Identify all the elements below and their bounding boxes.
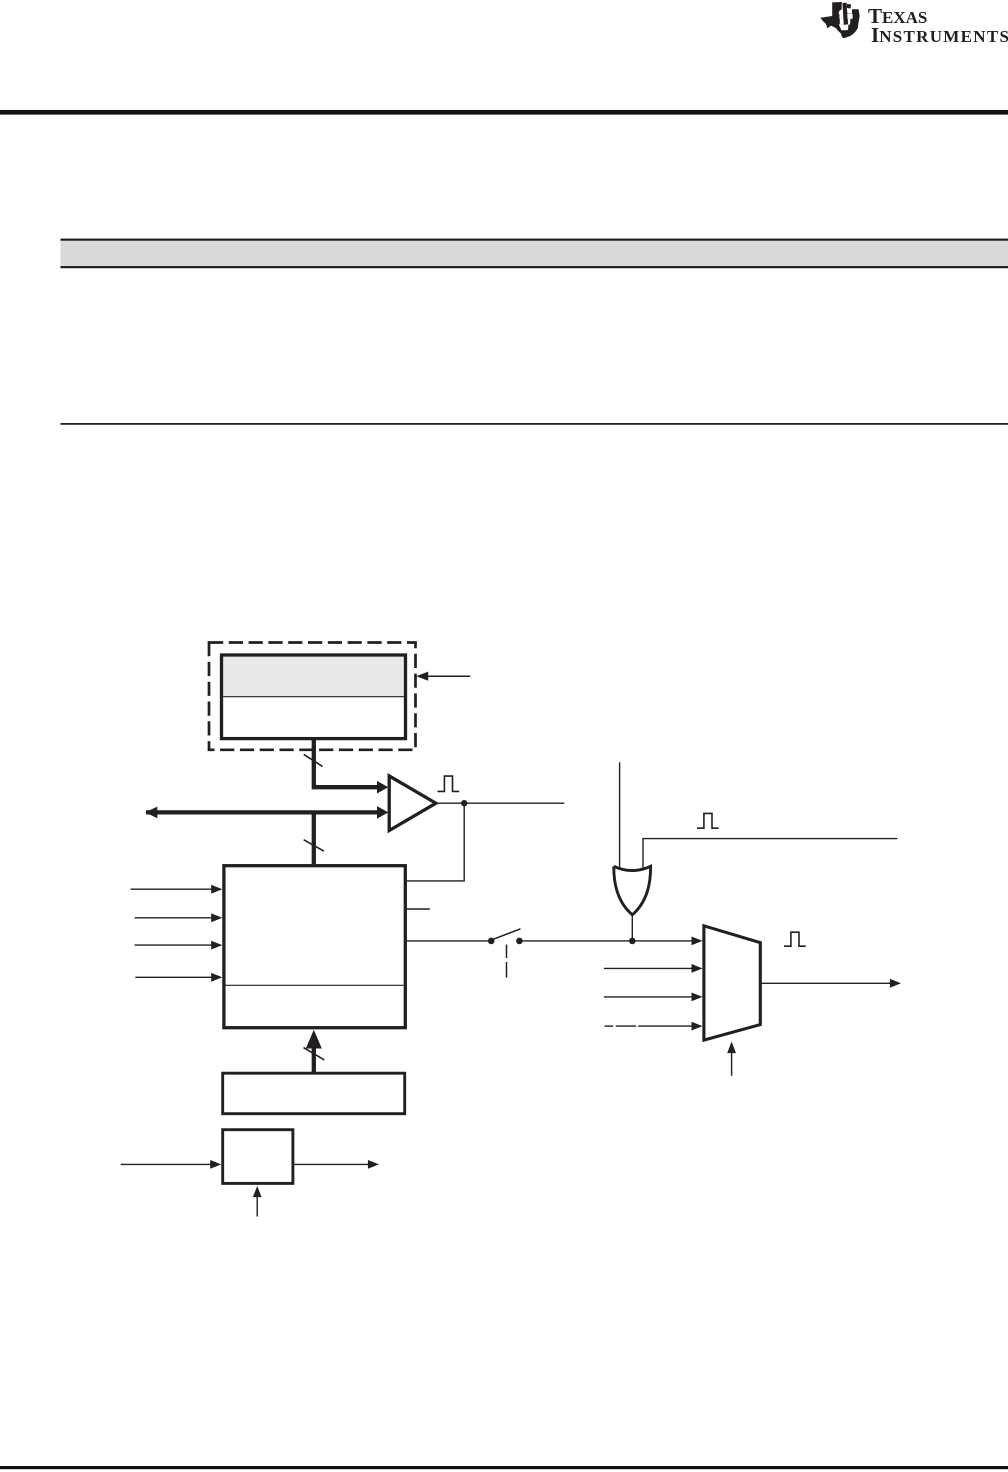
- pulse symbol P1: [438, 776, 460, 791]
- feedback wire to big box: [407, 803, 464, 881]
- bidirectional data bus: [146, 810, 378, 814]
- pulse symbol P3: [784, 932, 806, 946]
- wide box (period register): [223, 1073, 405, 1114]
- big box input wire 2: [135, 917, 212, 919]
- wire switch to mux input 1: [519, 940, 692, 942]
- register box border: [222, 655, 406, 739]
- big box input wire 1: [131, 888, 213, 890]
- small box output wire: [294, 1163, 368, 1165]
- comparator triangle: [389, 776, 436, 831]
- or-gate output wire: [631, 915, 633, 940]
- table bottom rule: [61, 423, 1008, 425]
- or-gate input wire left: [619, 762, 621, 868]
- bus from register box down with elbow to comparator: [314, 739, 378, 787]
- switch blade: [494, 929, 521, 939]
- arrowhead into comparator input 1: [377, 781, 388, 794]
- data bus left arrowhead: [145, 807, 157, 819]
- switch control dashed wire: [506, 945, 508, 959]
- bus down to big box: [312, 812, 316, 864]
- mux input wire 2: [604, 967, 692, 969]
- mux input wire 3: [604, 996, 692, 998]
- header rule: [0, 110, 1008, 115]
- table header gray band: [61, 239, 1008, 269]
- junction dot B: [629, 938, 636, 945]
- big box input wire 3: [135, 944, 212, 946]
- register box fill: [222, 655, 406, 739]
- mux trapezoid: [704, 926, 760, 1040]
- TI logo wordmark TEXAS: [868, 4, 927, 29]
- small box (prescaler): [223, 1130, 293, 1184]
- arrow into register box (load): [427, 675, 470, 677]
- switch dot right: [516, 938, 523, 945]
- TI logo wordmark INSTRUMENTS: [871, 23, 1008, 48]
- bus slash 1: [304, 754, 323, 766]
- bus slash 2: [304, 840, 324, 852]
- bus slash 3: [304, 1048, 325, 1060]
- footer rule: [0, 1466, 1008, 1469]
- wire big box to switch: [407, 940, 488, 942]
- register box divider: [223, 696, 404, 698]
- mux output wire: [760, 982, 890, 984]
- junction dot A: [461, 800, 467, 806]
- TI logo texas glyph: [820, 2, 860, 40]
- big box input wire 4: [135, 976, 212, 978]
- mux input wire 4 (dashed start): [604, 1025, 613, 1027]
- comparator output wire: [436, 802, 564, 804]
- bus up arrowhead: [306, 1030, 322, 1049]
- register box shaded top half: [223, 657, 404, 697]
- small box input wire: [121, 1163, 211, 1165]
- bus from wide box up into big box: [312, 1044, 316, 1072]
- or-gate input wire right with long horizontal: [643, 839, 897, 869]
- switch dot left: [488, 938, 495, 945]
- pulse symbol P2: [697, 813, 719, 828]
- dashed box (register boundary): [209, 643, 416, 750]
- big box divider: [226, 984, 404, 986]
- arrowhead into comparator input 2: [377, 806, 388, 819]
- mux control wire: [731, 1053, 733, 1076]
- or-gate U1: [614, 866, 651, 915]
- big box (timer/counter): [224, 866, 405, 1028]
- stub wire on big box: [407, 908, 430, 910]
- small box control wire: [256, 1197, 258, 1217]
